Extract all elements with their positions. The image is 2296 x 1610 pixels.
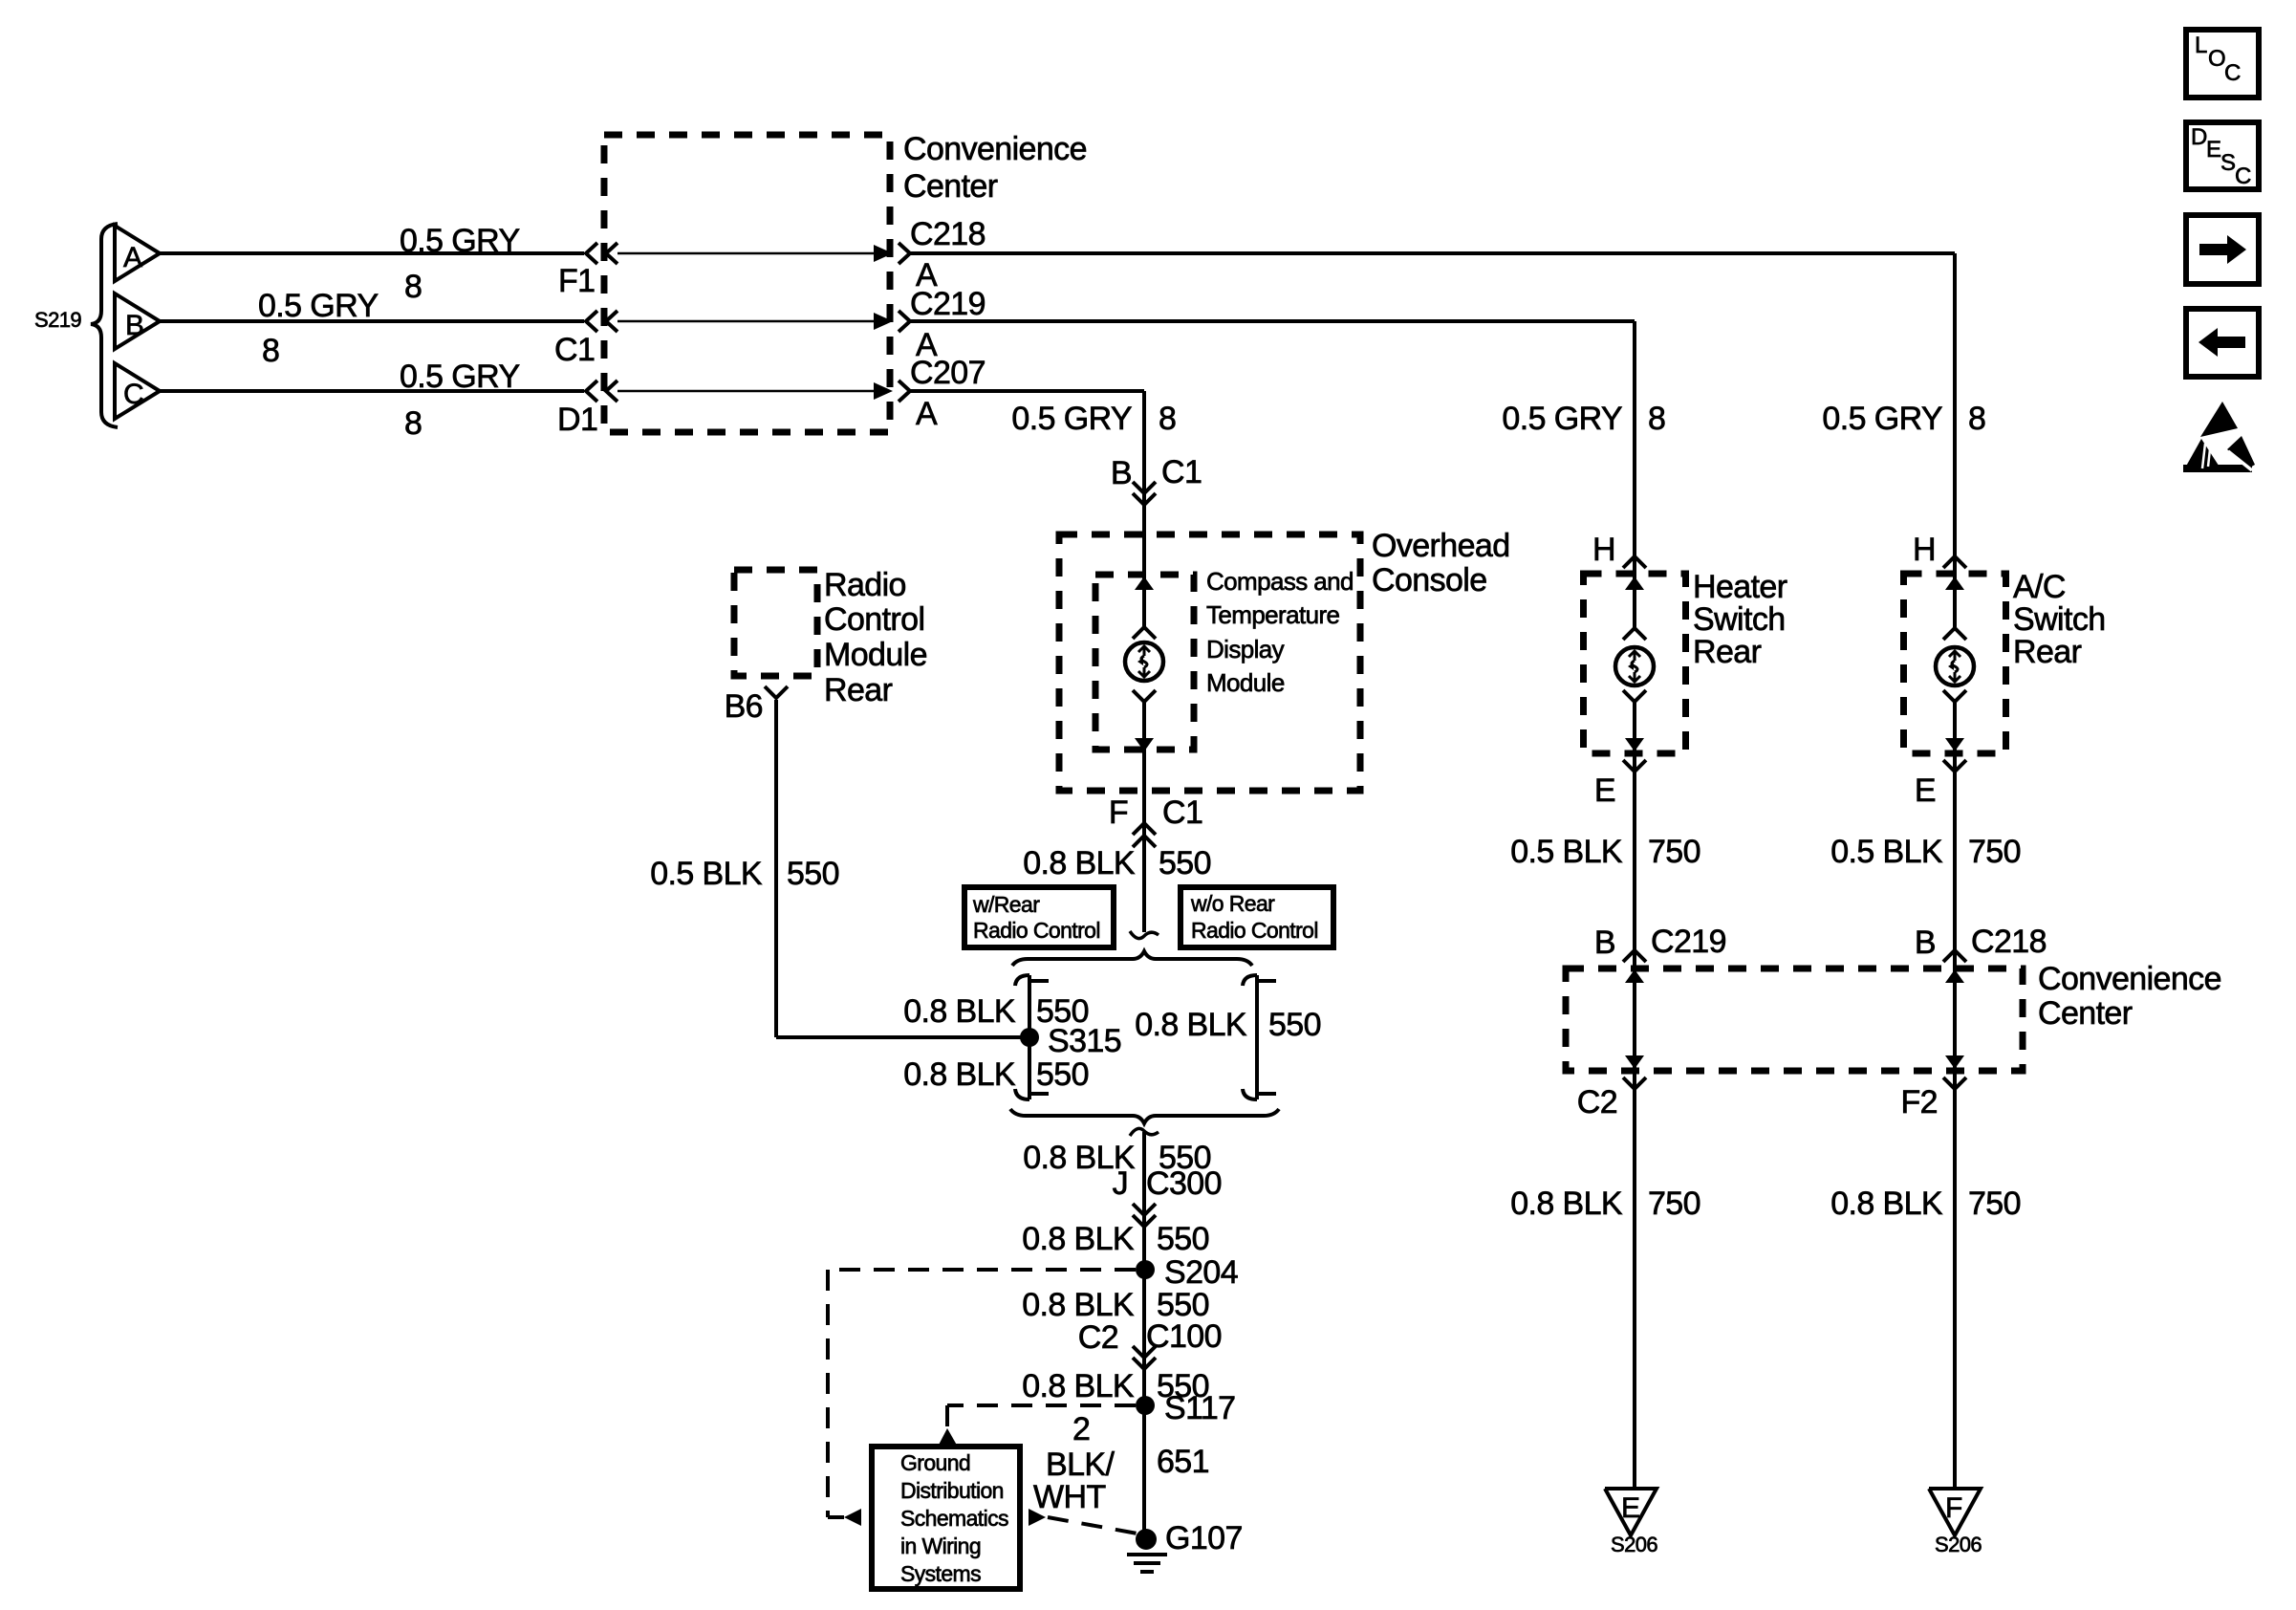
svg-text:0.5 GRY: 0.5 GRY bbox=[1822, 401, 1942, 437]
svg-text:E: E bbox=[1621, 1492, 1639, 1524]
svg-text:H: H bbox=[1592, 532, 1615, 568]
svg-text:BLK/: BLK/ bbox=[1046, 1447, 1115, 1483]
svg-text:D: D bbox=[2191, 124, 2207, 150]
svg-text:0.5 BLK: 0.5 BLK bbox=[650, 856, 763, 892]
svg-text:0.5 GRY: 0.5 GRY bbox=[258, 288, 379, 324]
svg-text:0.8 BLK: 0.8 BLK bbox=[1022, 1287, 1135, 1323]
svg-text:0.8 BLK: 0.8 BLK bbox=[903, 1056, 1016, 1093]
svg-text:C219: C219 bbox=[1651, 924, 1726, 960]
svg-text:750: 750 bbox=[1968, 834, 2021, 870]
svg-text:S206: S206 bbox=[1935, 1533, 1982, 1556]
svg-text:Overhead: Overhead bbox=[1372, 528, 1510, 564]
svg-text:B: B bbox=[125, 310, 143, 341]
svg-text:E: E bbox=[1594, 772, 1615, 809]
svg-text:C219: C219 bbox=[910, 286, 986, 322]
svg-text:D1: D1 bbox=[557, 402, 597, 438]
svg-text:Control: Control bbox=[824, 601, 924, 638]
svg-text:S315: S315 bbox=[1048, 1023, 1121, 1059]
svg-text:F2: F2 bbox=[1901, 1084, 1938, 1120]
svg-text:0.8 BLK: 0.8 BLK bbox=[1022, 1221, 1135, 1257]
svg-text:J: J bbox=[1113, 1165, 1128, 1202]
svg-text:0.8 BLK: 0.8 BLK bbox=[903, 993, 1016, 1030]
svg-text:Switch: Switch bbox=[1693, 601, 1786, 638]
svg-text:8: 8 bbox=[404, 405, 422, 442]
svg-text:C300: C300 bbox=[1146, 1165, 1222, 1202]
svg-text:S117: S117 bbox=[1164, 1390, 1235, 1426]
svg-text:Module: Module bbox=[1206, 668, 1285, 697]
svg-text:750: 750 bbox=[1968, 1186, 2021, 1222]
svg-text:550: 550 bbox=[787, 856, 839, 892]
svg-text:S204: S204 bbox=[1164, 1254, 1238, 1291]
svg-text:B: B bbox=[1594, 925, 1615, 961]
svg-text:Rear: Rear bbox=[2013, 634, 2082, 670]
svg-text:L: L bbox=[2195, 33, 2207, 58]
svg-text:C207: C207 bbox=[910, 355, 986, 391]
svg-text:C100: C100 bbox=[1146, 1318, 1222, 1355]
svg-text:Console: Console bbox=[1372, 562, 1487, 598]
svg-text:C1: C1 bbox=[554, 332, 595, 368]
svg-text:B: B bbox=[1915, 925, 1936, 961]
svg-text:B: B bbox=[1111, 455, 1132, 491]
svg-text:Ground: Ground bbox=[900, 1450, 970, 1475]
svg-text:C: C bbox=[2224, 60, 2241, 86]
svg-text:550: 550 bbox=[1268, 1007, 1321, 1043]
svg-text:8: 8 bbox=[1648, 401, 1665, 437]
svg-text:WHT: WHT bbox=[1033, 1479, 1106, 1515]
svg-text:8: 8 bbox=[404, 269, 422, 305]
svg-text:550: 550 bbox=[1157, 1221, 1209, 1257]
svg-text:E: E bbox=[1915, 772, 1936, 809]
svg-text:Distribution: Distribution bbox=[900, 1478, 1004, 1503]
svg-text:Schematics: Schematics bbox=[900, 1506, 1008, 1531]
svg-text:651: 651 bbox=[1157, 1444, 1209, 1480]
svg-text:Center: Center bbox=[903, 168, 998, 205]
svg-text:2: 2 bbox=[1072, 1411, 1090, 1447]
svg-text:A/C: A/C bbox=[2013, 569, 2066, 605]
svg-text:750: 750 bbox=[1648, 834, 1700, 870]
svg-text:Convenience: Convenience bbox=[903, 131, 1087, 167]
svg-text:Convenience: Convenience bbox=[2038, 961, 2221, 997]
svg-text:0.5 GRY: 0.5 GRY bbox=[400, 359, 520, 395]
svg-text:Radio Control: Radio Control bbox=[973, 918, 1100, 943]
svg-text:Rear: Rear bbox=[1693, 634, 1762, 670]
svg-text:8: 8 bbox=[262, 333, 279, 369]
svg-text:8: 8 bbox=[1968, 401, 1985, 437]
svg-text:Module: Module bbox=[824, 637, 927, 673]
svg-text:0.5 GRY: 0.5 GRY bbox=[400, 223, 520, 259]
svg-text:Radio: Radio bbox=[824, 567, 906, 603]
svg-text:Center: Center bbox=[2038, 995, 2133, 1032]
svg-text:Heater: Heater bbox=[1693, 569, 1787, 605]
svg-text:0.8 BLK: 0.8 BLK bbox=[1023, 845, 1136, 881]
svg-text:A: A bbox=[123, 242, 142, 273]
svg-text:550: 550 bbox=[1036, 1056, 1089, 1093]
svg-text:E: E bbox=[2206, 137, 2220, 163]
svg-text:Radio Control: Radio Control bbox=[1191, 918, 1318, 943]
svg-text:0.5 BLK: 0.5 BLK bbox=[1830, 834, 1943, 870]
svg-text:C: C bbox=[123, 379, 143, 410]
svg-text:G107: G107 bbox=[1165, 1520, 1243, 1556]
svg-text:550: 550 bbox=[1159, 845, 1211, 881]
svg-text:in Wiring: in Wiring bbox=[900, 1534, 981, 1558]
svg-text:Rear: Rear bbox=[824, 672, 893, 708]
svg-text:C218: C218 bbox=[1971, 924, 2047, 960]
svg-text:0.8 BLK: 0.8 BLK bbox=[1830, 1186, 1943, 1222]
svg-text:0.8 BLK: 0.8 BLK bbox=[1022, 1368, 1135, 1404]
svg-text:Systems: Systems bbox=[900, 1561, 981, 1586]
svg-text:0.8 BLK: 0.8 BLK bbox=[1510, 1186, 1623, 1222]
svg-text:0.8 BLK: 0.8 BLK bbox=[1135, 1007, 1247, 1043]
svg-text:C1: C1 bbox=[1162, 794, 1202, 831]
svg-text:0.5 GRY: 0.5 GRY bbox=[1502, 401, 1622, 437]
svg-text:S: S bbox=[2220, 150, 2235, 176]
svg-text:O: O bbox=[2208, 46, 2225, 72]
svg-text:F: F bbox=[1109, 794, 1128, 831]
svg-text:S219: S219 bbox=[34, 308, 81, 332]
svg-text:Display: Display bbox=[1206, 635, 1285, 664]
svg-text:C1: C1 bbox=[1161, 454, 1202, 490]
svg-text:C2: C2 bbox=[1078, 1319, 1118, 1356]
svg-text:H: H bbox=[1913, 532, 1936, 568]
svg-text:0.5 BLK: 0.5 BLK bbox=[1510, 834, 1623, 870]
svg-text:F: F bbox=[1945, 1492, 1962, 1524]
svg-text:C218: C218 bbox=[910, 216, 986, 252]
svg-text:750: 750 bbox=[1648, 1186, 1700, 1222]
svg-text:S206: S206 bbox=[1611, 1533, 1657, 1556]
svg-text:A: A bbox=[916, 396, 938, 432]
svg-text:Temperature: Temperature bbox=[1206, 600, 1339, 629]
svg-text:0.5 GRY: 0.5 GRY bbox=[1011, 401, 1132, 437]
svg-text:C2: C2 bbox=[1577, 1084, 1617, 1120]
svg-text:Compass and: Compass and bbox=[1206, 567, 1354, 596]
svg-text:B6: B6 bbox=[725, 688, 763, 725]
svg-text:w/Rear: w/Rear bbox=[972, 892, 1040, 917]
svg-text:w/o Rear: w/o Rear bbox=[1190, 891, 1275, 916]
svg-text:Switch: Switch bbox=[2013, 601, 2106, 638]
svg-text:8: 8 bbox=[1159, 401, 1176, 437]
svg-text:C: C bbox=[2235, 163, 2251, 189]
svg-text:F1: F1 bbox=[558, 263, 595, 299]
